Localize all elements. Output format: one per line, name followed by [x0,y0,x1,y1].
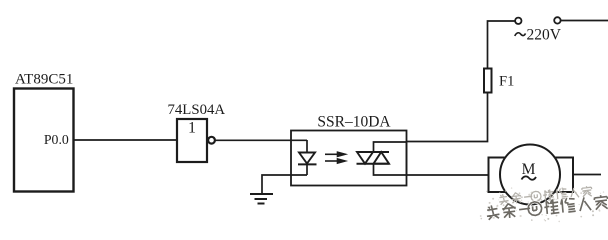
svg-text:74LS04A: 74LS04A [168,102,226,118]
svg-text:SSR–10DA: SSR–10DA [317,114,391,131]
svg-text:F1: F1 [499,74,514,90]
svg-text:1: 1 [188,120,196,137]
svg-text:220V: 220V [527,27,562,44]
svg-text:P0.0: P0.0 [44,132,69,147]
svg-text:M: M [522,161,536,178]
svg-text:AT89C51: AT89C51 [15,72,73,88]
